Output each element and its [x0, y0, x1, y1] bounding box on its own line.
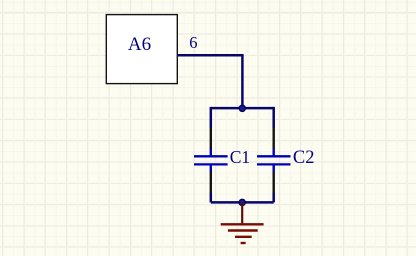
junction node bottom [239, 199, 245, 205]
junction node top [239, 105, 245, 111]
svg-text:C2: C2 [293, 148, 315, 168]
wire: vertical feed down to top node [241, 55, 244, 108]
wire: right branch top stub [272, 107, 275, 128]
wire: pin 6 from box to corner [177, 54, 243, 57]
wire: left branch top stub [210, 107, 213, 128]
part A6 box [106, 15, 177, 84]
svg-text:A6: A6 [128, 34, 151, 55]
wire: right branch bottom stub [272, 193, 275, 203]
capacitor C1 [194, 128, 228, 194]
svg-text:6: 6 [189, 33, 197, 52]
ground GND power port [221, 202, 264, 243]
wire: left branch bottom stub [210, 193, 213, 203]
capacitor C2 [257, 128, 291, 194]
wire: bottom bus [211, 201, 274, 204]
svg-text:C1: C1 [230, 147, 250, 167]
wire: top bus [211, 107, 274, 110]
